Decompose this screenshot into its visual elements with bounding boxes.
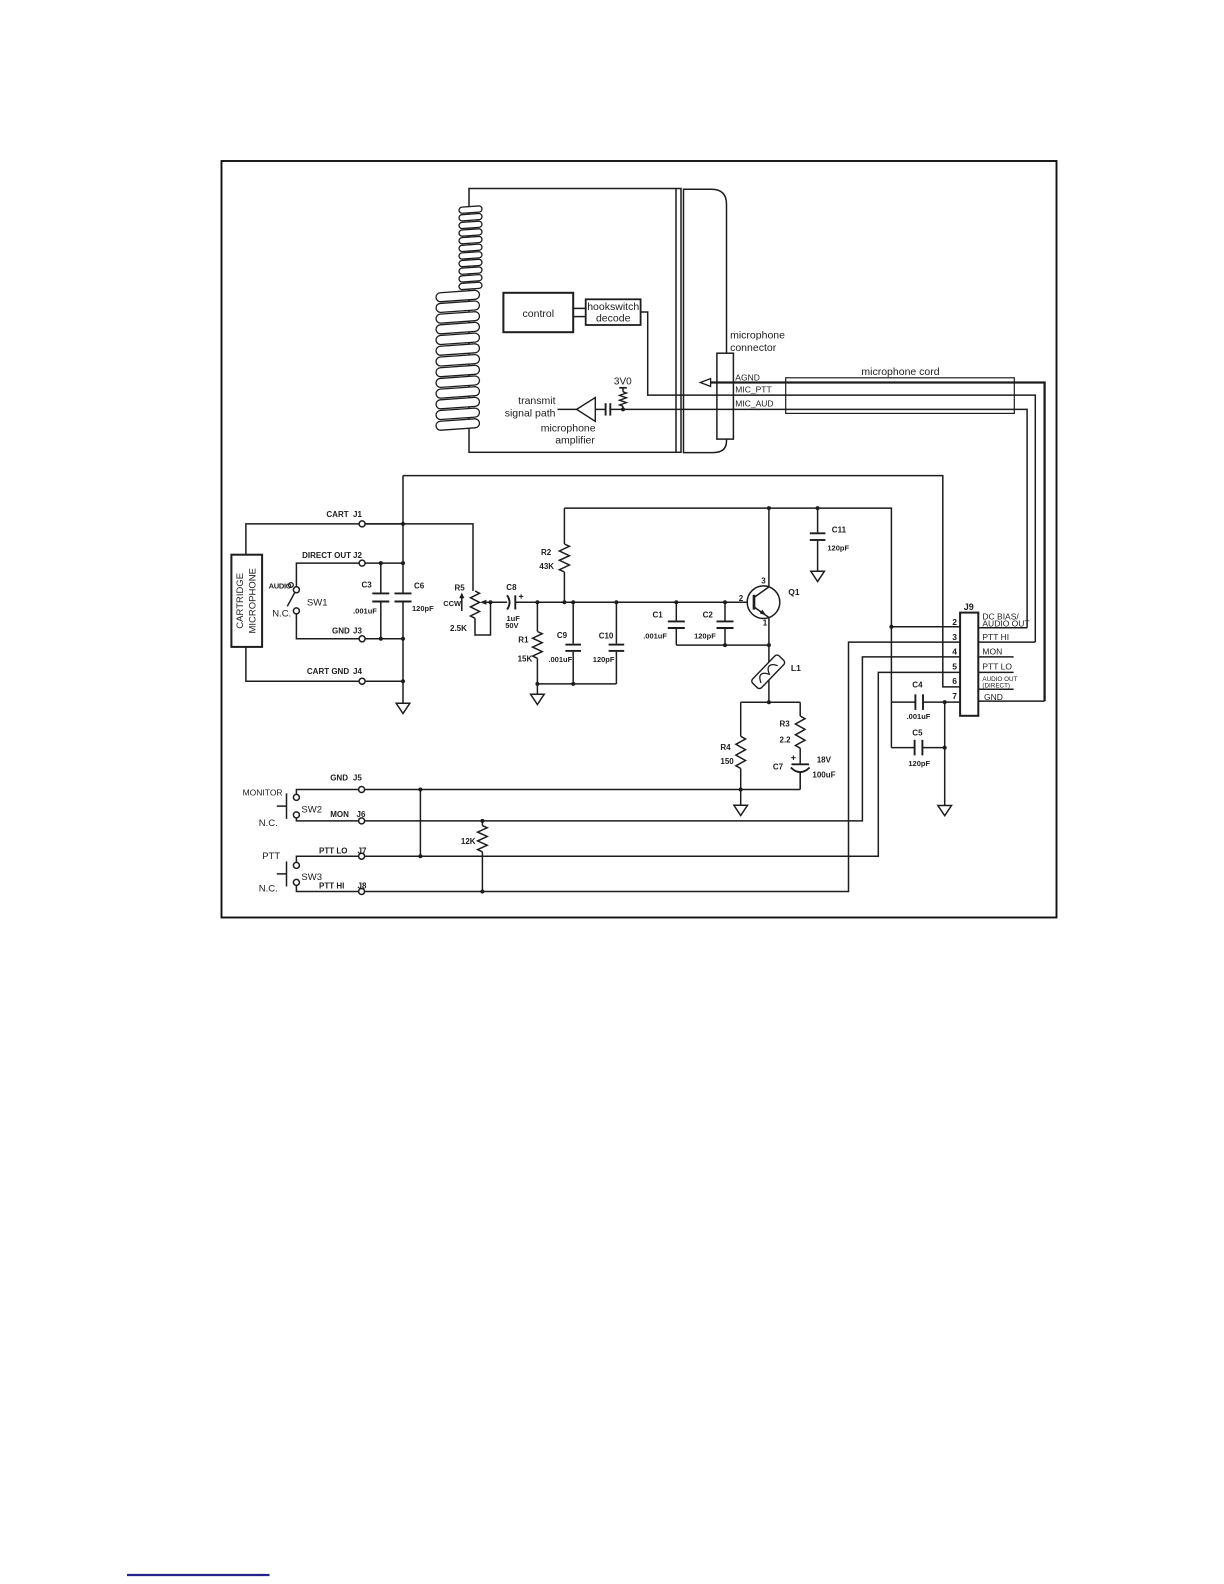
label J9 bbox=[964, 602, 974, 612]
svg-text:150: 150 bbox=[720, 757, 734, 766]
svg-text:GND: GND bbox=[984, 692, 1003, 702]
label MONITOR bbox=[243, 787, 283, 797]
label C2 bbox=[703, 611, 714, 620]
svg-text:CARTRIDGE: CARTRIDGE bbox=[235, 573, 246, 629]
svg-text:C8: C8 bbox=[506, 583, 517, 592]
microphone connector label bbox=[730, 329, 785, 354]
label pin 3 bbox=[952, 632, 957, 642]
svg-text:L1: L1 bbox=[791, 663, 801, 673]
jack J8 bbox=[359, 889, 365, 895]
footer blue rule bbox=[127, 1574, 270, 1576]
svg-text:(DIRECT): (DIRECT) bbox=[982, 683, 1010, 690]
label pin 2 bbox=[952, 617, 957, 627]
wire C1/C2 emitter rail bbox=[676, 644, 769, 646]
label C3 bbox=[362, 581, 373, 590]
label C3 value bbox=[353, 607, 377, 616]
svg-text:3: 3 bbox=[952, 632, 957, 642]
svg-text:J4: J4 bbox=[353, 667, 362, 676]
svg-text:J3: J3 bbox=[353, 627, 362, 636]
control block bbox=[503, 293, 573, 332]
radio right housing (rounded) bbox=[684, 189, 727, 452]
connector J9 body bbox=[960, 613, 978, 716]
label R2 bbox=[541, 548, 552, 557]
svg-text:1: 1 bbox=[763, 618, 768, 627]
svg-text:15K: 15K bbox=[518, 654, 533, 663]
ground at C11 bbox=[811, 571, 825, 581]
wire cartridge to J1 bbox=[246, 524, 403, 555]
svg-text:N.C.: N.C. bbox=[259, 883, 278, 894]
capacitor C9 bbox=[565, 602, 581, 684]
label C11 value bbox=[827, 544, 849, 553]
capacitor C3 bbox=[372, 563, 389, 639]
label C7 bbox=[773, 763, 784, 772]
svg-text:SW1: SW1 bbox=[307, 597, 328, 608]
capacitor C7 (electrolytic) bbox=[791, 756, 810, 790]
svg-text:5: 5 bbox=[952, 661, 957, 671]
svg-text:SW2: SW2 bbox=[301, 804, 322, 815]
svg-text:18V: 18V bbox=[817, 755, 832, 764]
svg-text:R1: R1 bbox=[518, 636, 529, 645]
capacitor C2 bbox=[717, 602, 734, 645]
potentiometer R5 bbox=[471, 591, 491, 635]
wire J5 GND bbox=[296, 790, 800, 795]
capacitor C11 bbox=[810, 508, 826, 571]
svg-text:120pF: 120pF bbox=[827, 544, 849, 553]
label R4 bbox=[720, 743, 731, 752]
label DIRECT OUT J2 bbox=[302, 551, 362, 560]
label CART GND J4 bbox=[307, 667, 363, 676]
svg-text:PTT HI: PTT HI bbox=[982, 632, 1009, 642]
label PTT LO J7 bbox=[319, 846, 367, 855]
capacitor C6 bbox=[395, 593, 412, 601]
svg-text:120pF: 120pF bbox=[412, 604, 434, 613]
wire J2 to SW1 bbox=[296, 563, 403, 587]
wire J1 vertical bus lower bbox=[402, 602, 404, 704]
svg-text:PTT: PTT bbox=[262, 851, 280, 862]
svg-text:AUDIO OUT: AUDIO OUT bbox=[982, 619, 1029, 629]
svg-text:PTT HI: PTT HI bbox=[319, 881, 344, 890]
label pin 5 bbox=[952, 661, 957, 671]
ground at C5 bus bbox=[938, 806, 952, 816]
wire DC-bias rail bbox=[564, 508, 891, 627]
wire emitter branch rail bbox=[741, 701, 801, 703]
svg-text:C4: C4 bbox=[912, 681, 923, 690]
coupling capacitor bbox=[606, 403, 611, 415]
label MON J6 bbox=[330, 810, 366, 819]
svg-text:100uF: 100uF bbox=[812, 771, 835, 780]
svg-text:R3: R3 bbox=[780, 720, 791, 729]
label R1 bbox=[518, 636, 529, 645]
svg-text:3V0: 3V0 bbox=[614, 377, 632, 388]
svg-text:MONITOR: MONITOR bbox=[243, 787, 283, 797]
cartridge microphone box bbox=[231, 555, 262, 647]
switch SW1 AUDIO terminal bbox=[289, 583, 294, 588]
svg-text:C7: C7 bbox=[773, 763, 784, 772]
jack J6 bbox=[359, 818, 365, 824]
svg-text:.001uF: .001uF bbox=[643, 632, 667, 641]
svg-text:microphone cord: microphone cord bbox=[861, 366, 939, 378]
label SW3 bbox=[301, 872, 322, 883]
schematic border frame bbox=[222, 161, 1057, 918]
svg-text:MICROPHONE: MICROPHONE bbox=[248, 568, 259, 633]
inductor L1 bbox=[751, 654, 786, 690]
label Q1 pin3 bbox=[761, 576, 766, 585]
svg-text:C5: C5 bbox=[912, 728, 923, 737]
wire CART rail to pin6 (AUDIO OUT DIRECT) bbox=[403, 476, 960, 687]
wire J1 to R5 bbox=[365, 524, 473, 591]
svg-text:.001uF: .001uF bbox=[548, 655, 572, 664]
label PTT bbox=[262, 851, 280, 862]
svg-text:AGND: AGND bbox=[735, 372, 760, 382]
label C6 bbox=[414, 582, 425, 591]
label MON (pin4) bbox=[982, 647, 1002, 657]
svg-text:connector: connector bbox=[730, 342, 777, 354]
wire cartridge to J4 bbox=[246, 647, 403, 681]
label C4 bbox=[912, 681, 923, 690]
label C9 value bbox=[548, 655, 572, 664]
jack J4 bbox=[359, 678, 365, 684]
svg-text:2: 2 bbox=[739, 594, 744, 603]
antenna spring upper coil bbox=[459, 206, 482, 290]
resistor at 3V0 bbox=[620, 388, 627, 410]
label pin 6 bbox=[952, 676, 957, 686]
pin4 label line bbox=[978, 656, 1013, 658]
svg-text:C3: C3 bbox=[362, 581, 373, 590]
switch SW1 NC contact bbox=[293, 608, 299, 614]
svg-text:43K: 43K bbox=[539, 562, 554, 571]
junction 3V0-MIC_AUD bbox=[621, 407, 625, 411]
capacitor C10 bbox=[609, 602, 625, 684]
switch SW3 bbox=[277, 861, 300, 886]
wire C7 to J5 wire bbox=[799, 772, 801, 789]
svg-text:J9: J9 bbox=[964, 602, 974, 612]
wire J6 MON to pin4 bbox=[296, 657, 960, 821]
label C7 value bbox=[812, 771, 835, 780]
ground at R4 bbox=[734, 790, 748, 816]
svg-text:N.C.: N.C. bbox=[259, 818, 278, 829]
label GND J5 bbox=[330, 774, 362, 783]
node wire R5 wiper to Q1 base bbox=[491, 601, 748, 603]
svg-text:C2: C2 bbox=[703, 611, 714, 620]
svg-text:GND: GND bbox=[332, 627, 350, 636]
wire hookswitch to MIC_PTT / PTT HI bbox=[641, 312, 1036, 642]
MIC_PTT label bbox=[735, 384, 771, 394]
svg-text:signal path: signal path bbox=[505, 408, 556, 420]
ground at R1 rail bbox=[531, 684, 545, 705]
label SW2 bbox=[301, 804, 322, 815]
wire J3 to SW1 NC bbox=[296, 614, 403, 639]
label R3 bbox=[780, 720, 791, 729]
antenna spring lower coil bbox=[436, 290, 480, 431]
resistor R3 bbox=[795, 702, 805, 763]
svg-text:J5: J5 bbox=[353, 774, 362, 783]
wire J1 vertical bus upper bbox=[402, 476, 404, 594]
label R3 value bbox=[780, 735, 792, 744]
label C7 voltage bbox=[817, 755, 832, 764]
junction dots bbox=[379, 506, 947, 893]
MIC_AUD label bbox=[735, 398, 773, 408]
svg-text:C10: C10 bbox=[599, 632, 614, 641]
svg-text:7: 7 bbox=[952, 691, 957, 701]
wire Q1 collector bbox=[768, 508, 770, 587]
microphone amplifier label bbox=[541, 422, 596, 446]
label CCW + arrow bbox=[443, 593, 464, 611]
svg-text:MIC_PTT: MIC_PTT bbox=[735, 384, 771, 394]
microphone connector body bbox=[717, 353, 734, 439]
label C11 bbox=[832, 525, 847, 534]
jack J3 bbox=[359, 636, 365, 642]
label C1 bbox=[653, 611, 664, 620]
svg-text:120pF: 120pF bbox=[908, 759, 930, 768]
3V0 supply tap bar bbox=[619, 387, 627, 389]
label C8 bbox=[506, 583, 517, 592]
resistor R2 bbox=[559, 508, 569, 602]
label C1 value bbox=[643, 632, 667, 641]
svg-text:J1: J1 bbox=[353, 510, 362, 519]
label C2 value bbox=[694, 632, 716, 641]
svg-text:R2: R2 bbox=[541, 548, 552, 557]
wire into amplifier bbox=[558, 408, 578, 410]
capacitor C5 bbox=[891, 740, 944, 756]
wire J5 to J7 link bbox=[419, 790, 421, 857]
capacitor C4 bbox=[891, 694, 960, 710]
wire pin2 bbox=[891, 626, 960, 628]
label C10 bbox=[599, 632, 614, 641]
label C4 value bbox=[907, 712, 931, 721]
svg-text:2.5K: 2.5K bbox=[450, 624, 467, 633]
label pin 4 bbox=[952, 647, 957, 657]
svg-text:4: 4 bbox=[952, 647, 957, 657]
wire J8 PTT HI to pin3 bbox=[296, 642, 960, 891]
switch SW1 lever bbox=[287, 593, 294, 607]
capacitor C1 bbox=[668, 602, 685, 645]
wire C4/C5 left bus bbox=[890, 627, 892, 748]
pin7 label line bbox=[978, 700, 1044, 702]
label pin 7 bbox=[952, 691, 957, 701]
svg-text:GND: GND bbox=[330, 774, 348, 783]
jack J5 bbox=[359, 787, 365, 793]
pin5 label line bbox=[978, 671, 1013, 673]
3V0 supply label bbox=[614, 377, 632, 388]
svg-text:6: 6 bbox=[952, 676, 957, 686]
wire MIC_AUD path bbox=[611, 409, 1027, 627]
transistor Q1 bbox=[747, 586, 780, 619]
microphone cord label bbox=[861, 366, 939, 378]
svg-text:.001uF: .001uF bbox=[907, 712, 931, 721]
wire Q1 emitter bbox=[768, 618, 770, 703]
label R5 bbox=[455, 584, 466, 593]
label Q1 bbox=[788, 587, 800, 597]
label R1 value bbox=[518, 654, 533, 663]
label GND J3 bbox=[332, 627, 362, 636]
svg-text:120pF: 120pF bbox=[593, 655, 615, 664]
label C9 bbox=[557, 631, 568, 640]
radio front seam line bbox=[675, 189, 677, 453]
hookswitch decode block bbox=[586, 299, 641, 325]
AGND label bbox=[735, 372, 760, 382]
svg-text:3: 3 bbox=[761, 576, 766, 585]
svg-text:microphone: microphone bbox=[541, 422, 596, 434]
svg-text:12K: 12K bbox=[461, 837, 476, 846]
label R5 value bbox=[450, 624, 467, 633]
svg-text:C9: C9 bbox=[557, 631, 568, 640]
AGND wire (bold) bbox=[711, 383, 1045, 702]
svg-text:hookswitch: hookswitch bbox=[587, 301, 639, 313]
svg-text:R5: R5 bbox=[455, 584, 466, 593]
switch SW2 bbox=[277, 793, 300, 819]
label C5 bbox=[912, 728, 923, 737]
svg-text:decode: decode bbox=[596, 312, 631, 324]
svg-text:AUDIO: AUDIO bbox=[269, 581, 292, 590]
svg-text:MON: MON bbox=[982, 647, 1002, 657]
svg-text:microphone: microphone bbox=[730, 329, 785, 341]
pin6 label line bbox=[978, 688, 1013, 690]
label N.C. (SW3) bbox=[259, 883, 278, 894]
jack J1 bbox=[359, 521, 365, 527]
label R2 value bbox=[539, 562, 554, 571]
label N.C. (SW1) bbox=[272, 608, 291, 619]
svg-text:C1: C1 bbox=[653, 611, 664, 620]
jack J2 bbox=[359, 560, 365, 566]
label CART J1 bbox=[326, 510, 362, 519]
svg-text:2: 2 bbox=[952, 617, 957, 627]
svg-text:MON: MON bbox=[330, 810, 349, 819]
label C8 value bbox=[505, 614, 520, 630]
label AUDIO bbox=[269, 581, 292, 590]
pin2 label line bbox=[978, 627, 1027, 629]
svg-text:CART: CART bbox=[326, 510, 348, 519]
switch SW1 pole contact bbox=[293, 587, 299, 593]
svg-text:transmit: transmit bbox=[518, 395, 555, 407]
label C10 value bbox=[593, 655, 615, 664]
ground at J4 bus bbox=[396, 703, 410, 713]
label C5 value bbox=[908, 759, 930, 768]
label C6 value bbox=[412, 604, 434, 613]
cartridge microphone label bbox=[235, 568, 259, 633]
label DC BIAS/AUDIO OUT bbox=[982, 612, 1029, 629]
svg-text:DIRECT OUT: DIRECT OUT bbox=[302, 551, 351, 560]
jack J7 bbox=[359, 853, 365, 859]
microphone amplifier (triangle) bbox=[577, 398, 596, 422]
control label bbox=[523, 308, 555, 320]
label N.C. (SW2) bbox=[259, 818, 278, 829]
transmit signal path label bbox=[505, 395, 556, 420]
wire amplifier to coupling cap bbox=[595, 408, 605, 410]
pin3 label line bbox=[978, 641, 1035, 643]
label PTT HI (pin3) bbox=[982, 632, 1009, 642]
wire GND bus right bbox=[944, 702, 946, 805]
label PTT HI J8 bbox=[319, 881, 367, 890]
svg-text:R4: R4 bbox=[720, 743, 731, 752]
svg-text:.001uF: .001uF bbox=[353, 607, 377, 616]
label Q1 pin1 bbox=[763, 618, 768, 627]
label Q1 pin2 bbox=[739, 594, 744, 603]
label R4 value bbox=[720, 757, 734, 766]
svg-text:C11: C11 bbox=[832, 525, 847, 534]
svg-text:J2: J2 bbox=[353, 551, 362, 560]
microphone cord tube bbox=[786, 378, 1015, 414]
svg-text:50V: 50V bbox=[505, 621, 518, 630]
svg-text:120pF: 120pF bbox=[694, 632, 716, 641]
label SW1 bbox=[307, 597, 328, 608]
radio body outline bbox=[469, 189, 681, 453]
resistor 12K bbox=[478, 821, 488, 892]
svg-text:CART GND: CART GND bbox=[307, 667, 349, 676]
svg-text:CCW: CCW bbox=[443, 599, 462, 608]
svg-text:C6: C6 bbox=[414, 582, 425, 591]
label PTT LO (pin5) bbox=[982, 662, 1012, 672]
wire control-hookswitch bus bbox=[573, 308, 586, 316]
AGND arrow bbox=[700, 379, 710, 387]
hookswitch decode label bbox=[587, 301, 639, 324]
label L1 bbox=[791, 663, 801, 673]
capacitor C8 (electrolytic) bbox=[507, 594, 523, 609]
resistor R4 bbox=[736, 702, 746, 789]
svg-text:control: control bbox=[523, 308, 555, 320]
label AUDIO OUT (DIRECT) bbox=[982, 676, 1017, 689]
svg-text:Q1: Q1 bbox=[788, 587, 800, 597]
svg-text:amplifier: amplifier bbox=[555, 434, 595, 446]
svg-text:PTT LO: PTT LO bbox=[319, 846, 347, 855]
resistor R1 bbox=[533, 602, 543, 684]
label GND (pin7) bbox=[984, 692, 1003, 702]
label 12K bbox=[461, 837, 476, 846]
wire R1/C9/C10 ground rail bbox=[537, 683, 616, 685]
svg-text:PTT LO: PTT LO bbox=[982, 662, 1012, 672]
svg-text:N.C.: N.C. bbox=[272, 608, 291, 619]
svg-text:2.2: 2.2 bbox=[780, 735, 792, 744]
svg-text:MIC_AUD: MIC_AUD bbox=[735, 398, 773, 408]
wire J7 PTT LO to pin5 bbox=[296, 672, 960, 862]
